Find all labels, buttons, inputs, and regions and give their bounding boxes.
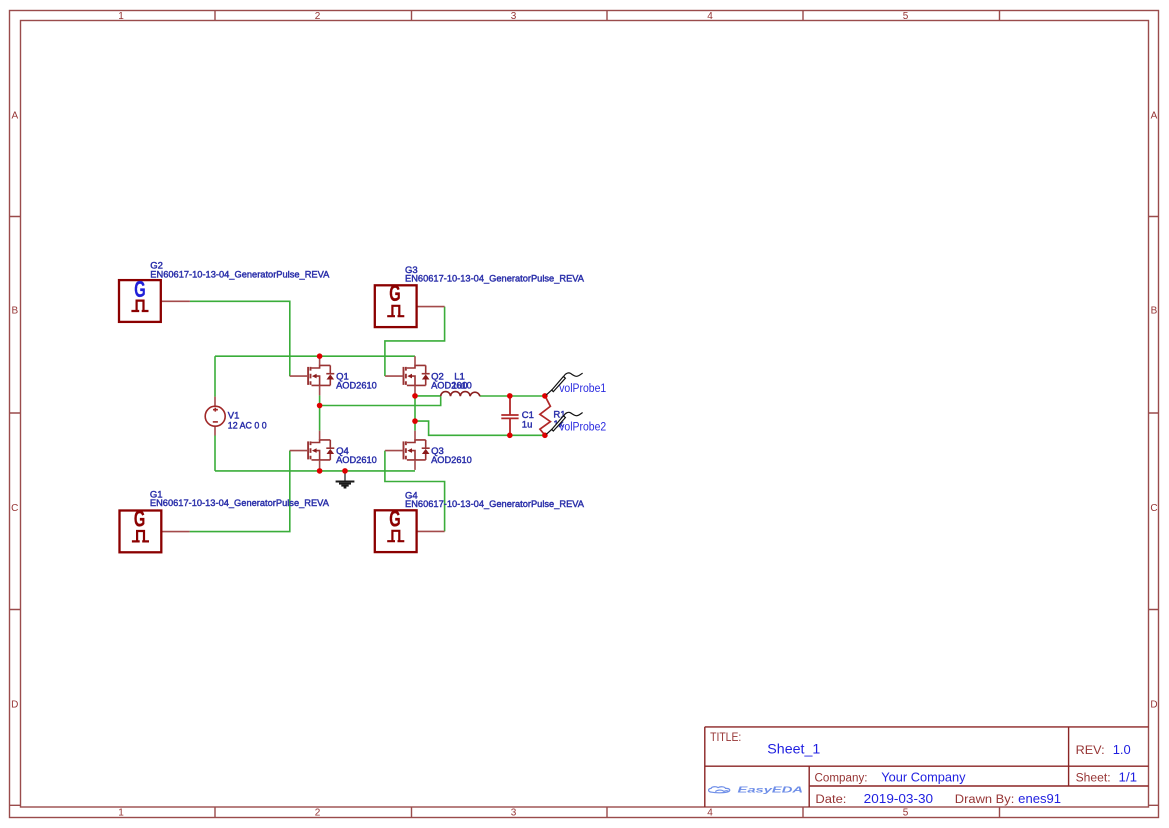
svg-text:B: B — [1151, 306, 1158, 317]
svg-text:1/1: 1/1 — [1119, 769, 1138, 784]
svg-text:G: G — [134, 276, 145, 302]
svg-text:Sheet:: Sheet: — [1076, 772, 1111, 784]
svg-text:G: G — [389, 506, 400, 532]
svg-text:Date:: Date: — [815, 794, 846, 806]
svg-text:D: D — [1150, 700, 1157, 711]
svg-text:B: B — [11, 306, 18, 317]
svg-text:volProbe2: volProbe2 — [559, 422, 606, 434]
svg-text:3: 3 — [511, 808, 517, 819]
svg-text:D: D — [11, 700, 18, 711]
svg-text:12 AC 0 0: 12 AC 0 0 — [228, 420, 267, 431]
svg-text:2: 2 — [315, 808, 321, 819]
svg-text:EasyEDA: EasyEDA — [738, 785, 804, 795]
svg-text:A: A — [1151, 111, 1158, 122]
svg-text:1u0: 1u0 — [452, 380, 468, 391]
svg-text:5: 5 — [903, 11, 909, 22]
svg-text:2019-03-30: 2019-03-30 — [864, 791, 933, 806]
svg-text:3: 3 — [511, 11, 517, 22]
svg-text:G: G — [389, 280, 400, 306]
svg-text:5: 5 — [903, 808, 909, 819]
svg-text:G: G — [134, 506, 145, 532]
svg-text:Drawn By:: Drawn By: — [955, 794, 1015, 806]
svg-text:1.0: 1.0 — [1113, 742, 1131, 757]
svg-text:REV:: REV: — [1076, 745, 1105, 757]
svg-text:C: C — [11, 503, 18, 514]
svg-text:EN60617-10-13-04_GeneratorPuls: EN60617-10-13-04_GeneratorPulse_REVA — [150, 269, 330, 280]
svg-text:1: 1 — [118, 808, 124, 819]
svg-text:AOD2610: AOD2610 — [336, 380, 377, 391]
svg-text:Sheet_1: Sheet_1 — [767, 741, 820, 757]
svg-text:1: 1 — [118, 11, 124, 22]
svg-text:enes91: enes91 — [1018, 791, 1061, 806]
svg-text:volProbe1: volProbe1 — [559, 383, 606, 395]
svg-text:AOD2610: AOD2610 — [431, 455, 472, 466]
svg-text:EN60617-10-13-04_GeneratorPuls: EN60617-10-13-04_GeneratorPulse_REVA — [150, 498, 330, 509]
svg-text:C: C — [1150, 503, 1157, 514]
svg-text:4: 4 — [707, 808, 713, 819]
svg-text:AOD2610: AOD2610 — [336, 455, 377, 466]
svg-text:EN60617-10-13-04_GeneratorPuls: EN60617-10-13-04_GeneratorPulse_REVA — [405, 274, 585, 285]
svg-text:A: A — [11, 111, 18, 122]
svg-text:Company:: Company: — [815, 772, 868, 784]
svg-text:TITLE:: TITLE: — [710, 732, 741, 744]
svg-text:1u: 1u — [522, 420, 533, 431]
svg-text:2: 2 — [315, 11, 321, 22]
svg-text:4: 4 — [707, 11, 713, 22]
svg-text:Your Company: Your Company — [881, 770, 966, 784]
svg-text:EN60617-10-13-04_GeneratorPuls: EN60617-10-13-04_GeneratorPulse_REVA — [405, 499, 585, 510]
